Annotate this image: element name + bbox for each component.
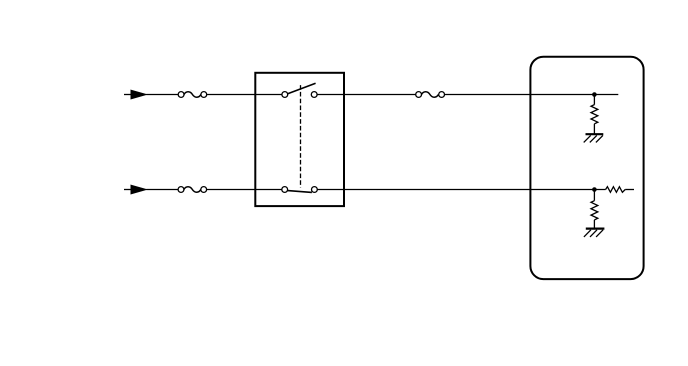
wire from top arrow to breaker CB1 (146, 94, 178, 96)
switch box (DPST enclosure) (255, 73, 344, 206)
switch pole S1a (top, open) (282, 83, 317, 97)
node (bottom junction dot) (592, 187, 597, 192)
wire from CB2 into load box (top) (445, 94, 619, 96)
wire from CB1 to switch box (top) (207, 94, 282, 96)
wire from switch box to breaker CB2 (top) (317, 94, 416, 96)
circuit breaker CB2 (top right) (416, 92, 445, 98)
circuit breaker CB1 (top left) (178, 92, 207, 98)
ground (bottom chassis ground) (584, 229, 605, 237)
dashed mechanical linkage (300, 85, 302, 187)
wire from CB3 to switch box (bottom) (207, 189, 282, 191)
resistor R3 (bottom, horizontal) (606, 187, 634, 193)
switch pole S1b (bottom, closed) (282, 187, 317, 193)
ground (top chassis ground) (584, 134, 604, 142)
input arrow (bottom line) (124, 185, 146, 194)
load box (rounded enclosure) (530, 57, 643, 279)
input arrow (top line) (124, 90, 146, 99)
resistor R2 (bottom, vertical) (591, 190, 598, 229)
node (top junction dot) (592, 92, 597, 97)
resistor R1 (top, vertical) (591, 95, 598, 135)
circuit breaker CB3 (bottom left) (178, 187, 207, 193)
wire from switch box to load box (bottom) (317, 189, 605, 191)
wire from bottom arrow to breaker CB3 (146, 189, 178, 191)
